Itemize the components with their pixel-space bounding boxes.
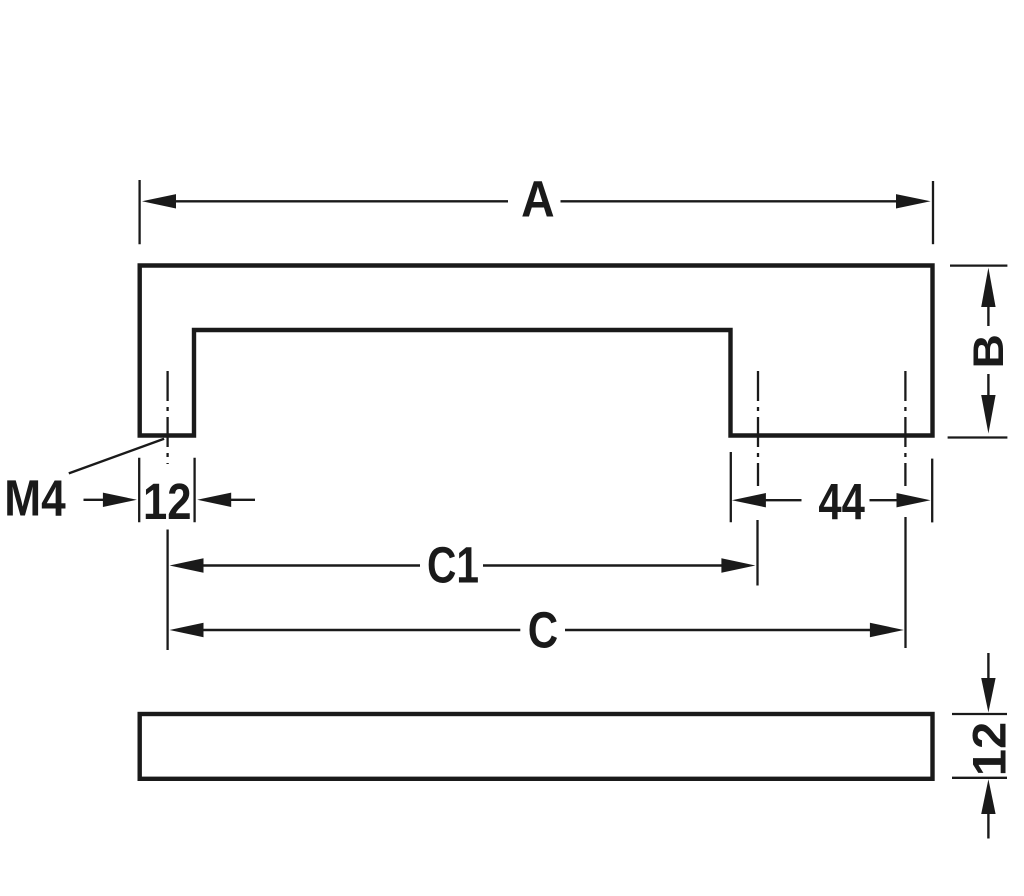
arrowhead 12 pointing left: [197, 493, 231, 507]
dimension A line right segment: [561, 200, 897, 202]
bottom bar (front view): [140, 714, 933, 779]
dimension 12 right arrow down shaft: [987, 653, 989, 679]
dimension C shaft right: [565, 629, 871, 631]
extension line A left: [138, 180, 140, 244]
dimension B arrow up: [981, 268, 995, 307]
arrowhead C1 left: [170, 558, 204, 572]
extension line C1 right solid: [756, 520, 758, 586]
center line left screw (dash-dot): [166, 371, 168, 464]
dimension 12 left: outside shaft right: [230, 499, 255, 501]
dimension C1 shaft right: [483, 564, 723, 566]
arrowhead A right: [896, 194, 931, 208]
svg-text:A: A: [521, 171, 555, 228]
arrowhead 12 pointing right: [103, 493, 137, 507]
dimension 44 shaft left: [765, 499, 802, 501]
arrowhead C1 right: [721, 558, 755, 572]
arrowhead 12 right pointing down: [981, 678, 995, 713]
tick 12 right top: [952, 713, 1007, 715]
arrowhead C left: [170, 623, 204, 637]
extension line 12 right: [193, 458, 195, 523]
dimension B arrow down: [981, 395, 995, 434]
svg-text:M4: M4: [4, 469, 66, 526]
extension line A right: [932, 181, 934, 244]
svg-text:B: B: [965, 334, 1013, 369]
svg-text:12: 12: [143, 473, 192, 530]
svg-text:12: 12: [963, 722, 1016, 777]
dimension 44 shaft right: [870, 499, 898, 501]
arrowhead 44 pointing left: [732, 493, 766, 507]
leader line M4: [69, 439, 164, 474]
dimension B shaft upper: [987, 306, 989, 326]
tick B top: [950, 264, 1007, 266]
dimension 12 left: outside shaft left: [84, 499, 104, 501]
handle profile outline (top view): [140, 266, 933, 436]
svg-text:44: 44: [818, 473, 865, 530]
svg-text:C: C: [528, 601, 558, 658]
arrowhead C right: [870, 623, 904, 637]
arrowhead 12 right pointing up: [981, 779, 995, 814]
center line right screw C (dash-dot): [904, 371, 906, 486]
extension line 12 left: [138, 458, 140, 523]
tick B bottom: [948, 436, 1008, 438]
dimension A line left segment: [176, 200, 508, 202]
dimension C1 shaft left: [203, 564, 421, 566]
dimension C shaft left: [203, 629, 521, 631]
tick 12 right bottom: [952, 777, 1007, 779]
svg-text:C1: C1: [427, 537, 479, 594]
arrowhead A left: [142, 194, 176, 208]
center line right screw C1 (dash-dot): [757, 371, 759, 486]
extension line C right solid: [904, 517, 906, 648]
center line left screw lower solid extension: [166, 530, 168, 651]
dimension B shaft lower: [987, 374, 989, 396]
extension line 44 left: [730, 452, 732, 522]
extension line 44 right: [931, 459, 933, 523]
dimension 12 right arrow up shaft: [987, 813, 989, 839]
arrowhead 44 pointing right: [897, 493, 931, 507]
